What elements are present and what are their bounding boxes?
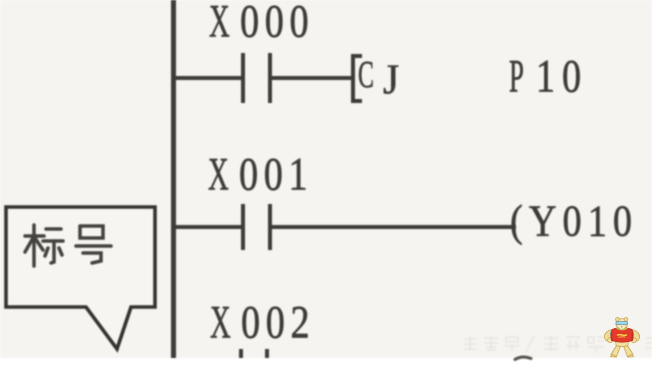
instruction J of CJ: [383, 58, 405, 101]
instruction CJ label: [358, 55, 378, 94]
right arm: [631, 330, 639, 342]
contact X000 right bar: [268, 53, 272, 103]
sunglasses: [616, 321, 627, 325]
wire rung1 right segment: [271, 76, 353, 81]
bracket of CJ instruction: [351, 54, 355, 103]
node X001 label: [208, 152, 313, 199]
contact X002 left bar (cut off): [239, 349, 243, 358]
wire rung2 right segment: [271, 225, 516, 230]
blue sleeves: [609, 330, 612, 336]
contact X000 left bar: [241, 53, 245, 103]
contact X002 right bar (cut off): [265, 349, 269, 358]
shirt: [610, 328, 632, 343]
node X000 label: [209, 0, 314, 46]
node X002 label: [210, 300, 315, 347]
smudge (top of next coil): [513, 354, 533, 361]
wire rung2 left segment: [173, 225, 241, 230]
collar: [616, 328, 627, 331]
ears: [615, 318, 619, 322]
shirt text: [617, 334, 627, 337]
contact X001 right bar: [268, 204, 272, 250]
标 left 木: [25, 234, 44, 238]
head: [615, 319, 627, 329]
left leg: [611, 342, 621, 357]
号: [80, 226, 103, 238]
wire rung1 left segment: [173, 76, 241, 81]
标 right 示: [46, 227, 61, 231]
hips / torso below shirt: [615, 340, 628, 347]
mascot bear logo: [603, 317, 643, 358]
right leg: [623, 342, 633, 357]
coil (Y010 label: [510, 199, 638, 244]
operand P10 label: [509, 54, 588, 101]
contact X001 left bar: [241, 204, 245, 250]
wire: left power rail: [171, 0, 176, 358]
left arm: [604, 330, 612, 342]
watermark (faint): [462, 334, 652, 354]
muzzle: [618, 325, 624, 329]
